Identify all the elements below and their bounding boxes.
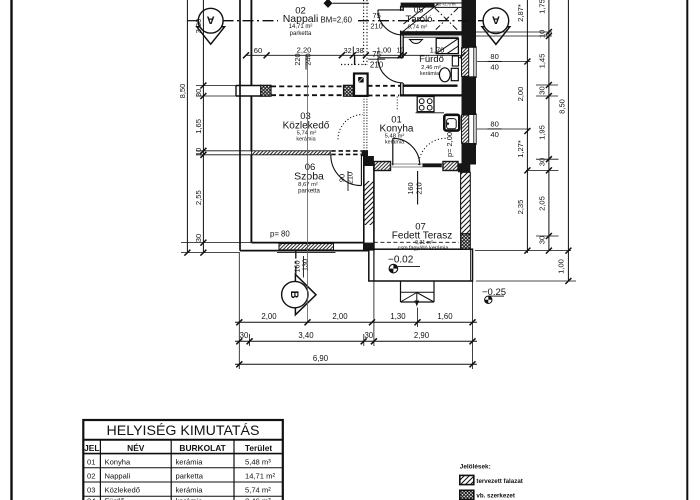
rotated label 160/210 terasz door [406,171,423,205]
left chain inner line [202,0,204,253]
svg-text:cső +2,70 fm: cső +2,70 fm [436,2,456,6]
window label 80/40 konyha [488,120,502,140]
counter edge [416,112,445,114]
svg-text:01: 01 [87,457,95,466]
wall furdo-konyha lower face [400,94,462,96]
svg-text:p= 80: p= 80 [270,230,290,239]
svg-text:14,71 m²: 14,71 m² [245,472,275,481]
terasz door leaf [392,138,394,165]
wc tank [451,68,458,80]
header texts [84,442,272,453]
boiler [452,56,458,66]
svg-text:kerámia: kerámia [385,139,404,145]
bottom chain row1 [235,321,477,323]
szoba south wall outer [240,250,369,252]
terasz top wall right hatched [443,162,458,171]
tarolo left wall inner [402,6,404,11]
level -0.25 symbol [485,296,504,303]
svg-text:75: 75 [372,11,380,20]
level -0.02 symbol [389,264,420,273]
szoba door opening dashed lintel [331,150,361,152]
svg-text:6,90: 6,90 [313,354,329,363]
vb block pier left [261,85,271,96]
svg-text:10: 10 [194,148,203,156]
wall chunk szoba door right [362,150,368,156]
page border left [10,0,12,500]
svg-text:vb. szerkezet: vb. szerkezet [476,493,515,500]
svg-text:kerámia: kerámia [296,137,315,143]
svg-text:2,20: 2,20 [297,45,312,54]
right chain3 labels [556,99,566,274]
konyha sink inner [447,119,457,129]
terasz slab left edge inner [373,249,375,281]
furdo sink [409,40,423,44]
svg-text:Nappali: Nappali [283,13,319,25]
bottom row1 ticks [236,319,475,325]
svg-text:Nappali: Nappali [105,472,131,481]
svg-text:A: A [207,14,215,26]
konyha sink [444,115,459,131]
svg-text:80: 80 [490,52,498,61]
svg-text:kerámia: kerámia [176,496,204,500]
svg-text:30: 30 [240,331,249,340]
row 02 [87,472,275,481]
table outer border [83,420,282,500]
window2 outer frame [474,114,476,145]
row 04 (cut) [87,496,271,500]
right chain connectors [470,32,576,281]
interior dim line nappali/furdo [246,54,463,56]
chimney block [354,74,368,96]
szoba door leaf [360,155,362,186]
left chain outer 8,50 line [186,0,188,253]
section A left circle [198,8,223,33]
svg-text:2,90: 2,90 [414,331,430,340]
szoba right wall faces [363,155,365,251]
kozlekedo-konyha dotted passage line a [363,96,365,151]
entrance steps side left [400,281,402,302]
svg-text:−0.02: −0.02 [388,255,414,266]
svg-text:Konyha: Konyha [105,457,132,466]
wall furdo-konyha upper face [403,85,458,87]
svg-text:Fürdő: Fürdő [105,496,125,500]
svg-text:2,46 m³: 2,46 m³ [245,496,271,500]
svg-text:kerámia: kerámia [407,30,426,36]
svg-text:30: 30 [194,234,203,242]
svg-text:Közlekedő: Közlekedő [105,486,140,495]
tarolo door leaf [378,9,403,11]
window1 connector line [477,61,531,63]
wall left inner face (szoba) [250,155,252,243]
svg-text:3,40: 3,40 [298,331,314,340]
legend box tervezett falazat [460,475,474,484]
svg-text:1,70: 1,70 [430,45,445,54]
svg-text:30: 30 [194,89,203,97]
svg-text:2,00: 2,00 [516,87,525,102]
svg-text:60: 60 [254,46,262,55]
section A right triangle [482,27,510,45]
bottom row1 labels [261,312,453,321]
svg-text:kerámia: kerámia [176,457,204,466]
left chain connectors [181,86,251,253]
opening dashed bottom (nappali-kozlekedo) [271,94,344,96]
nappali pier bottom line [236,95,261,97]
kozlekedo-konyha dotted passage line b [366,96,368,151]
chimney flue [358,77,364,83]
svg-text:30: 30 [364,331,373,340]
svg-text:210: 210 [415,182,424,194]
section B dashdot line [295,251,297,285]
svg-text:210: 210 [346,172,355,184]
opening dashed bottom (nappali-konyha) [368,95,399,97]
room 06 szoba [294,162,324,195]
svg-text:parketta: parketta [176,472,204,481]
svg-text:02: 02 [87,472,95,481]
svg-text:p= 2,00: p= 2,00 [445,132,454,157]
svg-text:kerámia: kerámia [420,71,439,77]
right chain3 ticks [565,248,571,284]
row 01 [87,457,271,466]
furdo north face line [403,36,458,38]
svg-text:parketta: parketta [298,189,320,195]
svg-text:30: 30 [538,86,547,94]
furdo door dotted projection [396,97,398,112]
wall nappali-tarolo stub [354,55,356,65]
right chain1 labels [516,4,525,214]
svg-text:2,87*: 2,87* [516,4,525,22]
svg-text:8,67 m²: 8,67 m² [298,182,318,188]
benchmark diamond top [324,0,333,8]
entrance steps bottom [401,301,435,303]
window1 outer frame [474,47,476,78]
svg-text:40: 40 [490,63,498,72]
door label 75/210 furdo [368,50,385,70]
section A left stub [187,20,198,22]
konyha sink faucet [447,123,449,125]
svg-text:05: 05 [414,5,424,15]
right chain 2 [548,0,550,251]
vb block pier right [344,85,354,96]
szoba right wall dark caps [364,156,374,166]
terasz door dotted arc second leaf [419,138,446,165]
svg-text:2,00: 2,00 [261,312,277,321]
svg-text:A: A [492,14,500,26]
tarolo left wall outer [400,6,402,11]
left chain labels [178,19,203,243]
svg-text:1,45: 1,45 [538,54,547,69]
svg-text:NÉV: NÉV [127,442,145,453]
stove burners [419,99,424,104]
svg-text:tervezett falazat: tervezett falazat [476,478,522,485]
terasz slab right edge inner [470,249,472,281]
svg-text:1,60: 1,60 [437,312,453,321]
furdo door arc [378,58,403,83]
svg-text:BURKOLAT: BURKOLAT [179,443,226,453]
bottom row2 labels [240,331,430,340]
svg-text:03: 03 [87,486,95,495]
entrance steps mid line [401,291,435,293]
svg-text:130: 130 [300,259,309,271]
svg-text:220: 220 [293,53,302,65]
right wall segment above window1 [462,0,477,48]
north wall right thin part [435,2,462,4]
tarolo dashed cross [435,8,458,31]
stove [417,97,434,112]
svg-text:240: 240 [304,53,313,65]
column lines [99,440,101,500]
section B circle [282,281,308,307]
interior dim ticks [243,52,466,58]
row 03 [87,486,271,495]
window2 konyha hatched [462,115,469,143]
opening dashed top (nappali-kozlekedo) [271,85,344,87]
title separator [83,439,282,441]
svg-text:2,00: 2,00 [332,312,348,321]
szoba window hatched [279,244,334,250]
header separator [83,453,282,455]
north wall tarolo solid [401,3,435,8]
entrance steps diagonals [401,293,435,303]
svg-text:Szoba: Szoba [294,171,324,183]
terasz slab outline [369,249,473,281]
terasz top wall corner black [458,163,470,172]
svg-text:1,27*: 1,27* [516,140,525,158]
svg-text:8,50: 8,50 [178,84,187,99]
entrance steps side right [433,281,435,302]
svg-text:210: 210 [370,61,384,70]
svg-text:30: 30 [538,158,547,166]
svg-text:Terület: Terület [245,443,273,453]
svg-text:1,65: 1,65 [194,119,203,134]
svg-text:38: 38 [356,46,364,55]
shower tray [436,38,458,53]
svg-text:HELYISÉG KIMUTATÁS: HELYISÉG KIMUTATÁS [107,422,260,439]
left chain ticks [184,83,206,256]
wall nappali-tarolo dotted face a [363,0,365,65]
door label 75/210 tarolo [370,11,382,31]
svg-text:14,71 m²: 14,71 m² [289,24,313,30]
svg-text:5,74 m²: 5,74 m² [245,486,271,495]
svg-text:1,95: 1,95 [538,125,547,140]
furdo left wall piece lower [400,83,402,96]
dotted line nappali niche [341,64,366,66]
svg-text:Jelölések:: Jelölések: [460,464,491,471]
window2 connector line [477,128,531,130]
furdo door leaf [378,57,403,59]
szoba window outer sill [277,252,336,254]
svg-text:csm.fagyálló kerámia: csm.fagyálló kerámia [398,246,449,252]
section A left triangle [197,27,225,44]
opening dashed top (nappali-konyha) [368,85,401,87]
terasz right wall hatched [461,172,471,234]
szoba south wall inner [251,242,363,244]
partition kozlekedo-szoba hatched [251,151,330,155]
szoba window jambs [278,243,280,251]
svg-text:1,75: 1,75 [538,0,547,14]
svg-text:2,55: 2,55 [194,190,203,205]
svg-text:30: 30 [538,236,547,244]
nappali pier left edge [235,86,237,97]
window1 furdo hatched [462,48,469,77]
tarolo stair diagonals [404,4,439,31]
window label 80/40 furdo [488,52,502,72]
svg-text:3,30: 3,30 [194,19,203,34]
svg-text:kerámia: kerámia [176,486,204,495]
nappali pier top line [236,85,261,87]
right wall segment between windows [462,76,477,115]
svg-text:B: B [288,291,300,299]
szoba door arc [331,155,362,186]
section line A-A right [358,20,483,22]
svg-text:8,50: 8,50 [558,99,567,114]
svg-text:04: 04 [87,496,95,500]
shower diagonal [436,38,458,53]
section A right circle [483,8,509,34]
bottom chain row3 [235,363,477,365]
right chain 3 [567,0,569,281]
svg-text:1,30: 1,30 [390,312,406,321]
terasz top wall left hatched [374,162,391,171]
right wall segment below window2 [462,143,477,165]
row separators [83,467,282,469]
bottom extension lines [239,253,472,369]
svg-text:10: 10 [397,47,405,54]
entrance arrow line [416,293,418,304]
tarolo door arc [378,10,403,35]
room 07 terasz [392,222,452,252]
svg-text:2,05: 2,05 [538,196,547,211]
entrance arrow head [414,301,419,307]
right chain 1 [526,0,528,253]
rotated label 90/210 szoba door [337,171,354,191]
section B triangle [295,274,316,314]
wall left outer face [239,0,241,251]
benchmark line [333,2,370,4]
wall left inner face (kozlekedo) [250,96,252,151]
svg-text:40: 40 [490,130,498,139]
svg-text:80: 80 [490,120,498,129]
right chain1 ticks [524,59,530,254]
bottom row3 ticks [236,361,475,367]
room 01 konyha [380,115,414,146]
terasz door opening lines [391,163,444,165]
svg-text:BM=2,60: BM=2,60 [321,16,353,25]
svg-text:5,48 m³: 5,48 m³ [245,457,271,466]
right chain2 ticks [546,29,552,254]
svg-text:Tároló: Tároló [406,14,433,25]
terasz dashed front line [374,241,459,243]
section line A-A left [223,20,279,22]
wall left inner face upper (nappali) [250,0,252,86]
svg-text:210: 210 [370,22,382,31]
room 04 furdo [419,54,444,77]
szoba right wall hatch [364,181,374,225]
svg-text:JEL: JEL [84,443,99,453]
wall tarolo-furdo solid [401,31,462,35]
bottom chain row2 [235,340,477,342]
svg-text:1,00: 1,00 [556,259,565,274]
szoba window centerline [306,55,308,322]
right chain2 labels [538,0,547,244]
terasz door arc [393,138,420,165]
room 03 kozlekedo [283,111,330,143]
room 02 nappali [283,6,319,38]
terasz right wall vb block [461,234,471,249]
rotated label 220/240 [293,53,312,69]
svg-text:2,35: 2,35 [516,200,525,215]
rotated label 160/130 szoba window [292,256,309,278]
svg-text:parketta: parketta [290,31,312,37]
svg-text:10: 10 [538,30,547,38]
bottom row2 ticks [236,338,475,344]
legend box vb szerkezet [460,490,474,499]
room 05 tarolo [406,5,433,37]
wall nappali-tarolo dotted face b [366,0,368,65]
konyha door dotted arc [338,115,363,140]
wc bowl [439,68,450,82]
terasz door fixed panel [423,163,442,167]
svg-text:32: 32 [344,46,352,55]
furdo left wall piece upper [400,35,402,58]
page border right [686,0,688,500]
svg-text:75: 75 [372,50,381,59]
